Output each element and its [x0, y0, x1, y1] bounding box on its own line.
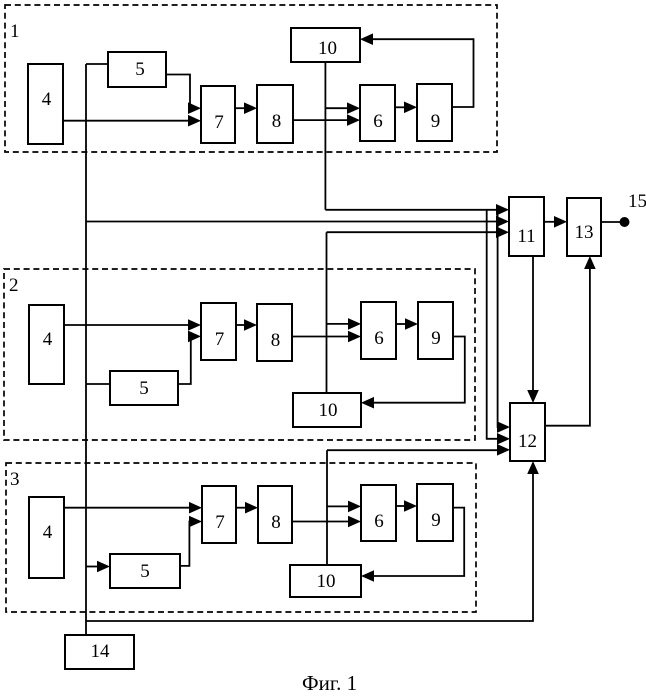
wire 7->8 (channel 2)	[236, 319, 257, 331]
node 15 output terminal	[620, 217, 630, 227]
wire bus->12 bottom input	[86, 461, 539, 621]
svg-text:4: 4	[43, 329, 53, 350]
wire 5->7 (channel 1)	[166, 75, 201, 115]
svg-text:3: 3	[10, 469, 20, 490]
block 5 (channel 1)	[108, 52, 166, 87]
block 4 (channel 2)	[29, 305, 64, 384]
wire bus->11 input 2	[86, 216, 509, 228]
block 4 (channel 3)	[29, 497, 64, 578]
wire 13->output 15	[601, 221, 621, 223]
wire bus->5 (channel 1)	[86, 63, 108, 65]
wire 9->10 feedback (channel 2)	[361, 337, 465, 409]
svg-text:11: 11	[517, 226, 535, 247]
wire 10(ch3)->12 input 3	[327, 444, 510, 456]
wire 8->6 (channel 2)	[292, 331, 361, 343]
block 10 (channel 1)	[291, 28, 360, 62]
block 12 adder	[510, 403, 545, 461]
svg-text:10: 10	[317, 571, 336, 592]
wire 11->13	[544, 216, 567, 228]
wire 6->9 (channel 2)	[396, 318, 418, 330]
wire branch B 11in1->12 input 1	[497, 210, 510, 433]
block 4 (channel 1)	[28, 64, 63, 144]
svg-text:8: 8	[271, 330, 281, 351]
svg-text:14: 14	[91, 641, 111, 662]
wire 8->6 (channel 3)	[292, 516, 361, 528]
svg-text:5: 5	[140, 561, 150, 582]
wire 9->10 feedback (channel 3)	[361, 508, 464, 582]
block 11 adder	[509, 197, 544, 256]
block 8 (channel 2)	[257, 304, 292, 361]
svg-text:10: 10	[318, 38, 337, 59]
wire 10->6 branch (channel 3)	[327, 501, 361, 513]
svg-text:9: 9	[431, 510, 441, 531]
block 9 (channel 2)	[418, 302, 453, 359]
wire 6->9 (channel 1)	[395, 102, 417, 114]
block 8 (channel 1)	[257, 85, 293, 143]
block 8 (channel 3)	[258, 486, 292, 543]
svg-text:5: 5	[139, 378, 149, 399]
svg-text:6: 6	[374, 328, 384, 349]
svg-text:7: 7	[215, 329, 225, 350]
dashed frame channel 3	[6, 463, 476, 612]
wire 7->8 (channel 3)	[236, 502, 258, 514]
wire 10->6 branch (channel 1)	[325, 102, 360, 114]
wire 8->6 (channel 1)	[293, 114, 360, 126]
wire 10->6 branch (channel 2)	[327, 318, 362, 330]
svg-text:2: 2	[9, 275, 19, 296]
block 9 (channel 1)	[417, 84, 452, 141]
svg-text:Фиг. 1: Фиг. 1	[302, 671, 357, 695]
svg-text:5: 5	[135, 59, 145, 80]
wire 10 output vertical (channel 2)	[326, 232, 328, 393]
wire 4->7 (channel 2)	[64, 319, 201, 331]
block 14 generator	[65, 635, 134, 669]
svg-text:4: 4	[43, 522, 53, 543]
svg-text:7: 7	[215, 512, 225, 533]
block 6 (channel 2)	[361, 302, 396, 359]
wire 4->7 (channel 3)	[64, 502, 202, 514]
block 7 (channel 2)	[201, 303, 236, 360]
svg-text:6: 6	[373, 111, 383, 132]
svg-text:9: 9	[431, 328, 441, 349]
block 13 output unit	[567, 198, 601, 256]
svg-text:13: 13	[575, 222, 594, 243]
wire bus->5 (channel 2)	[86, 383, 110, 385]
svg-text:12: 12	[518, 431, 537, 452]
wire 5->7 (channel 2)	[178, 331, 201, 384]
dashed frame channel 2	[4, 269, 475, 440]
block 9 (channel 3)	[417, 484, 453, 541]
dashed frame channel 1	[5, 5, 497, 152]
wire 12->13 bottom input	[545, 256, 596, 426]
svg-text:7: 7	[214, 112, 224, 133]
svg-text:4: 4	[42, 89, 52, 110]
wire bus from 14 vertical	[85, 64, 87, 635]
wire 10(ch1)->11 input 1	[325, 204, 509, 216]
block 6 (channel 1)	[360, 85, 395, 141]
block 10 (channel 3)	[290, 565, 361, 597]
block 10 (channel 2)	[293, 393, 361, 427]
svg-text:10: 10	[319, 400, 338, 421]
wire 5->7 (channel 3)	[180, 516, 202, 566]
wire 7->8 (channel 1)	[235, 102, 257, 114]
svg-text:6: 6	[374, 511, 384, 532]
block 7 (channel 3)	[202, 486, 236, 543]
block 5 (channel 2)	[110, 371, 178, 405]
wire 10 output vertical (channel 1)	[324, 62, 326, 210]
wire branch A 11in1->12 input 2	[487, 210, 510, 445]
svg-text:8: 8	[271, 512, 281, 533]
block 5 (channel 3)	[110, 554, 180, 588]
svg-text:9: 9	[431, 111, 441, 132]
wire bus->5 with arrow (channel 3)	[86, 561, 110, 573]
wire 11->12 top input	[527, 256, 539, 403]
wire 4->7 (channel 1)	[63, 115, 201, 127]
wire 10(ch2)->11 input 3	[327, 226, 510, 238]
svg-text:1: 1	[10, 21, 20, 42]
wire 10 output vertical (channel 3)	[326, 450, 328, 565]
wire 6->9 (channel 3)	[396, 500, 417, 512]
svg-text:15: 15	[628, 191, 646, 212]
wire 9->10 feedback (channel 1)	[360, 33, 474, 107]
block 6 (channel 3)	[361, 485, 396, 541]
svg-text:8: 8	[272, 111, 282, 132]
block 7 (channel 1)	[201, 86, 235, 143]
